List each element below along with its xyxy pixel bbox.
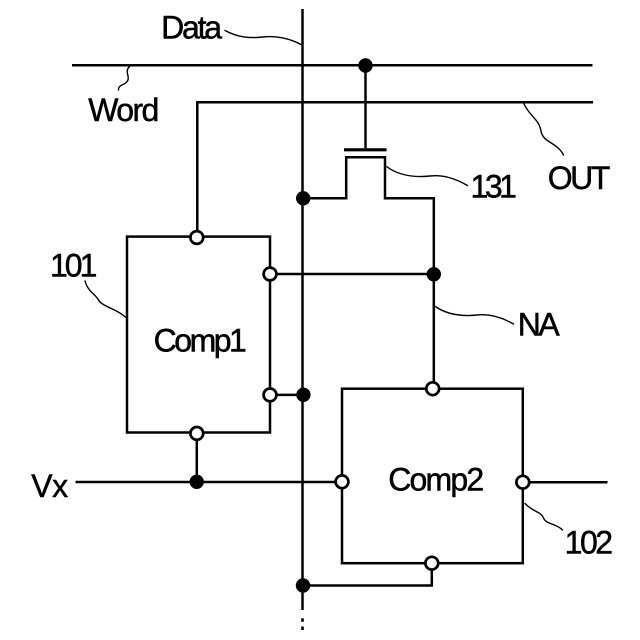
svg-text:Data: Data xyxy=(161,10,222,46)
svg-text:Comp2: Comp2 xyxy=(388,462,483,498)
svg-text:Word: Word xyxy=(88,92,157,128)
svg-text:131: 131 xyxy=(471,169,517,205)
svg-text:Vx: Vx xyxy=(31,468,68,504)
svg-text:OUT: OUT xyxy=(548,160,610,196)
svg-text:101: 101 xyxy=(50,248,97,284)
svg-text:102: 102 xyxy=(565,525,613,561)
svg-text:NA: NA xyxy=(518,306,561,342)
svg-text:Comp1: Comp1 xyxy=(154,323,246,359)
